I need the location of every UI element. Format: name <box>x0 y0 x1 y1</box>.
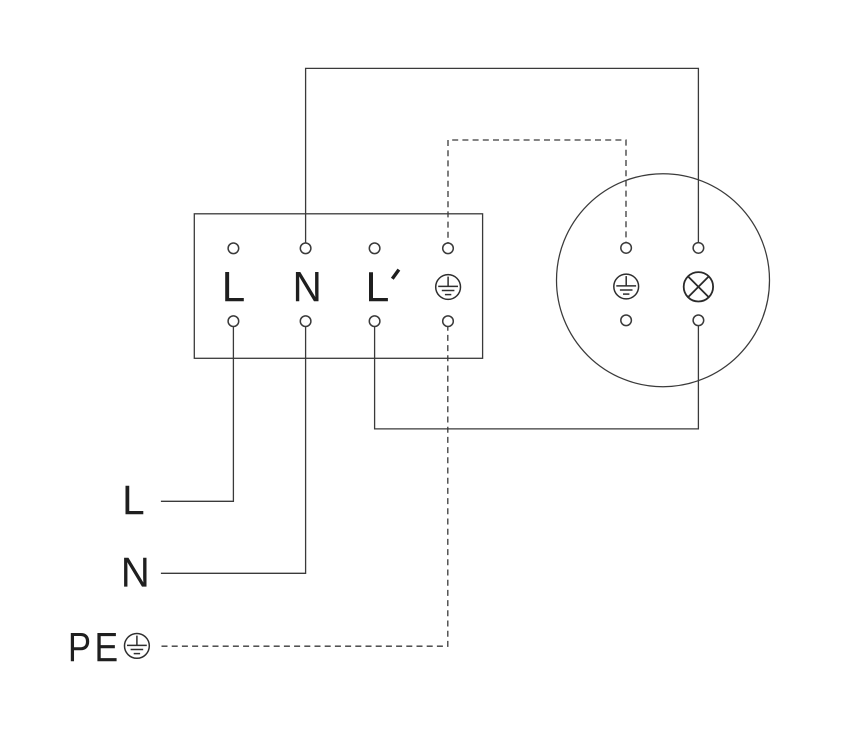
pin L' bottom <box>369 316 380 327</box>
label N (supply) <box>124 558 146 587</box>
pin PE top <box>443 243 454 254</box>
earth symbol on terminal block <box>436 275 461 300</box>
wire PE dashed bottom: PE symbol to block earth terminal <box>162 321 448 646</box>
lamp pin earth top <box>621 243 632 254</box>
lamp outline (big circle) <box>557 174 770 387</box>
label terminal N <box>296 272 319 301</box>
lamp pin live bottom <box>693 315 704 326</box>
terminal block outline <box>194 214 482 358</box>
earth symbol inside lamp <box>614 274 639 299</box>
lamp pin live top <box>693 243 704 254</box>
pin L' top <box>369 243 380 254</box>
pin N top <box>300 243 311 254</box>
pin L top <box>228 243 239 254</box>
lamp symbol (circle with X) <box>684 272 713 301</box>
pin L bottom <box>228 316 239 327</box>
wire N label to terminal N <box>161 321 306 573</box>
wire L label to terminal L <box>161 321 234 501</box>
wire N top: terminal N to lamp right terminal <box>306 68 699 248</box>
wire L' bottom: terminal L' to lamp bottom-right terminal <box>375 321 699 429</box>
label terminal L' <box>369 270 399 302</box>
earth symbol at PE label <box>124 634 149 659</box>
label terminal L <box>225 272 244 301</box>
pin PE bottom <box>443 316 454 327</box>
label L (supply) <box>125 486 143 514</box>
wire PE dashed top: block earth terminal to lamp earth terminal <box>448 140 626 248</box>
label PE (supply) <box>71 633 117 661</box>
pin N bottom <box>300 316 311 327</box>
lamp pin earth bottom <box>621 315 632 326</box>
